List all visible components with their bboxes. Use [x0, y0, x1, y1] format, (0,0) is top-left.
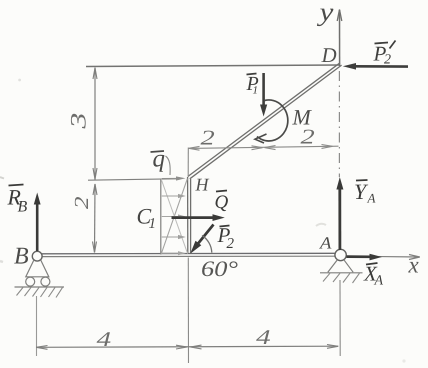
reaction Y_A arrow: [338, 186, 341, 250]
label 2 (right rod span): [301, 130, 315, 144]
support B pin circle: [32, 251, 42, 261]
label 2 (left rod span): [201, 131, 215, 145]
extension line below center point: [187, 258, 189, 364]
label 4 (right span): [256, 330, 270, 344]
paper smudge 4: [316, 224, 326, 226]
support A pin circle: [335, 249, 346, 260]
label P2prime with overbar: [373, 47, 385, 61]
dimension 2 line (vertical left): [94, 184, 97, 253]
label P1 with overbar: [246, 77, 258, 90]
extension line above H to rod dimension: [187, 148, 189, 178]
rod DH (double line): [188, 63, 340, 177]
q leader line: [166, 156, 171, 175]
load second diagonal (top-left to bottom-right): [161, 179, 187, 253]
load diagonal (bottom-left to top-right): [161, 179, 187, 254]
label X_A with overbar: [363, 267, 377, 281]
beam BA (double line): [40, 252, 336, 255]
dash-dot centerline from D down to A: [338, 71, 340, 177]
force Q arrow: [172, 216, 215, 219]
support B hatching: [17, 287, 63, 297]
label R_B with overbar: [7, 190, 20, 204]
label x: [408, 262, 418, 273]
label 2 (rotated): [75, 197, 88, 209]
top reference line at level of D: [86, 65, 340, 67]
force P2 arrow: [197, 225, 214, 246]
label A: [319, 237, 332, 248]
label q with overbar: [153, 155, 164, 172]
label 4 (left span): [97, 332, 111, 346]
extension line below B: [36, 296, 38, 356]
60 degree angle arc: [202, 235, 212, 252]
label 60 degrees: [202, 261, 237, 276]
support A triangle: [328, 260, 353, 273]
paper smudge 2: [0, 177, 4, 179]
label M: [292, 110, 312, 124]
load arrow 3: [162, 216, 179, 218]
support B rollers: [26, 277, 35, 286]
label D: [321, 48, 336, 62]
extension line below A: [339, 280, 341, 356]
bottom dimension line 4+4: [36, 346, 338, 347]
reaction R_B arrow: [36, 202, 39, 251]
label B: [14, 248, 28, 264]
rod dimension line 2+2: [189, 146, 339, 148]
level line at H for dimensions: [88, 179, 176, 180]
label Q with overbar: [216, 195, 228, 211]
paper smudge 1: [18, 79, 21, 82]
x axis line right of A: [346, 255, 419, 258]
paper smudge 3: [0, 261, 3, 262]
label P2 with overbar: [217, 228, 229, 242]
load arrow 5: [162, 252, 179, 254]
reaction X_A arrow: [347, 255, 372, 258]
label y: [317, 9, 334, 27]
distributed load left edge: [160, 179, 162, 255]
force P1 arrow: [262, 73, 265, 106]
paper smudge 5: [402, 359, 405, 362]
support B ground line: [15, 286, 65, 288]
support A hatching: [323, 273, 360, 283]
support A ground line: [320, 272, 363, 274]
label Y_A with overbar: [355, 185, 368, 199]
support B triangle: [26, 260, 49, 277]
load arrow 2: [162, 195, 179, 197]
y axis: [339, 10, 341, 66]
label C1: [138, 209, 152, 224]
label H: [195, 179, 209, 191]
vertical bar HK (double line): [187, 177, 189, 254]
force P2prime arrow: [354, 65, 408, 68]
label 3 (rotated): [71, 114, 86, 129]
dimension 3 line (vertical left): [94, 68, 96, 180]
load arrow 4: [162, 236, 179, 238]
moment M arc: [257, 100, 288, 141]
distributed load q top arrow: [176, 176, 186, 180]
